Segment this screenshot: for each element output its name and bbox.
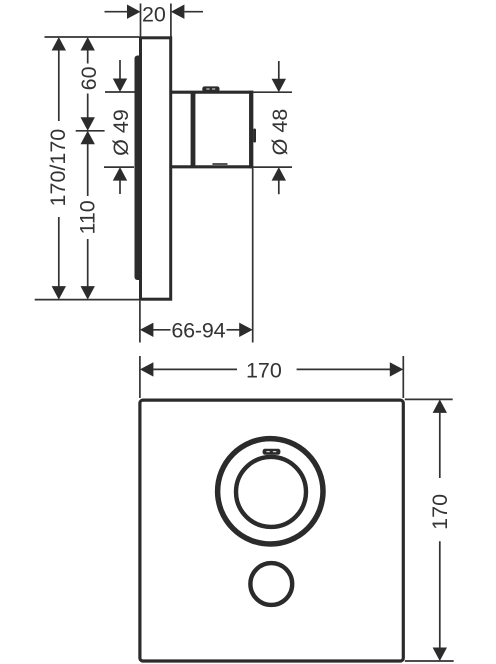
66-94 right extension line (252, 168, 254, 342)
right dim top extension line (405, 398, 453, 400)
dimension 60 down arrowhead (81, 117, 95, 131)
butterfly stub line at y130.8 (76, 130, 105, 132)
thermostat handle inner ring (236, 457, 306, 527)
sleeve/handle divider line (191, 92, 196, 169)
dimension 20 left leader (105, 11, 128, 13)
white tick marks on button cap (206, 89, 209, 90)
66-94 left arrowhead (points left) (140, 323, 154, 337)
dimension 20 right leader (185, 11, 204, 13)
dimension line 170/170 lower segment (58, 217, 60, 287)
select button small circle (250, 563, 292, 605)
svg-text:170/170: 170/170 (46, 129, 70, 207)
handle button front view (263, 449, 281, 455)
dimension 110 up arrowhead (81, 131, 95, 145)
dimension 20 right arrowhead (171, 5, 185, 19)
thermostat handle outer ring (218, 439, 323, 544)
66-94 left extension line (139, 301, 141, 343)
svg-text:Ø 49: Ø 49 (109, 109, 133, 156)
svg-text:170: 170 (428, 494, 452, 530)
dim 170 top right leader (297, 368, 391, 370)
dimension line 170/170 upper segment (58, 50, 60, 121)
dia48 bottom arrowhead (points up) (272, 167, 286, 181)
svg-text:66-94: 66-94 (171, 318, 225, 342)
svg-text:20: 20 (142, 3, 166, 27)
dimension 20 left arrowhead (127, 5, 141, 19)
white tick marks on front button (266, 451, 269, 452)
svg-text:110: 110 (76, 200, 100, 234)
dia48 top stub line (254, 91, 293, 93)
66-94 right arrowhead (points right) (239, 323, 253, 337)
handle face clip bump (253, 129, 256, 143)
bottom extension line of 170/170 (35, 299, 140, 301)
svg-text:170: 170 (246, 359, 282, 383)
top extension line of 170/170 (45, 36, 140, 38)
front view top-right extension line (402, 356, 404, 398)
handle front face line (249, 91, 253, 169)
front view top-left extension line (139, 356, 141, 398)
dia49 top stub line (105, 91, 136, 93)
dia49 bottom stub line (104, 166, 134, 168)
dimension 170/170 down arrowhead (52, 286, 66, 300)
svg-text:Ø 48: Ø 48 (268, 109, 292, 156)
dim 170 right upper leader (439, 412, 441, 478)
dim 170 top left leader (153, 368, 237, 370)
escutcheon square plate front view (140, 400, 403, 661)
wall plate side profile (141, 38, 171, 299)
dimension line 60 upper segment (87, 50, 89, 64)
dim 170 right up arrowhead (points up) (433, 399, 447, 413)
valve sleeve top line (171, 91, 253, 94)
dia48 bottom stub line (254, 166, 293, 168)
dia49 top arrowhead (points down) (113, 79, 127, 93)
svg-text:60: 60 (77, 66, 101, 90)
dia49 bottom arrowhead (points up) (113, 167, 127, 181)
extension line right of dim 20 (170, 4, 172, 37)
dimension line 110 upper segment (87, 144, 89, 196)
dimension line 60 lower segment (87, 94, 89, 119)
extension line left of dim 20 (140, 4, 142, 37)
dim 170 top left arrowhead (points left) (140, 362, 154, 376)
dia49 bottom arrow leader (119, 180, 121, 194)
dimension line 110 lower segment (87, 239, 89, 287)
handle bottom chamfer line (212, 163, 227, 165)
dimension 170/170 up arrowhead (52, 37, 66, 51)
valve sleeve bottom line (171, 165, 253, 168)
dimension 60 up arrowhead (81, 37, 95, 51)
dia49 top arrow leader (119, 60, 121, 79)
66-94 left leader (153, 329, 171, 331)
dim 170 right lower leader (439, 541, 441, 648)
handle top button cap (202, 86, 219, 92)
dimension 110 down arrowhead (81, 286, 95, 300)
dim 170 right down arrowhead (points down) (433, 648, 447, 662)
dia48 top arrow leader (278, 61, 280, 79)
dim 170 top right arrowhead (points right) (390, 362, 404, 376)
plate flange strip behind plate (135, 56, 143, 281)
66-94 right leader (227, 329, 240, 331)
dia48 top arrowhead (points down) (272, 79, 286, 93)
dia48 bottom arrow leader (278, 180, 280, 194)
right dim bottom extension line (405, 660, 454, 662)
